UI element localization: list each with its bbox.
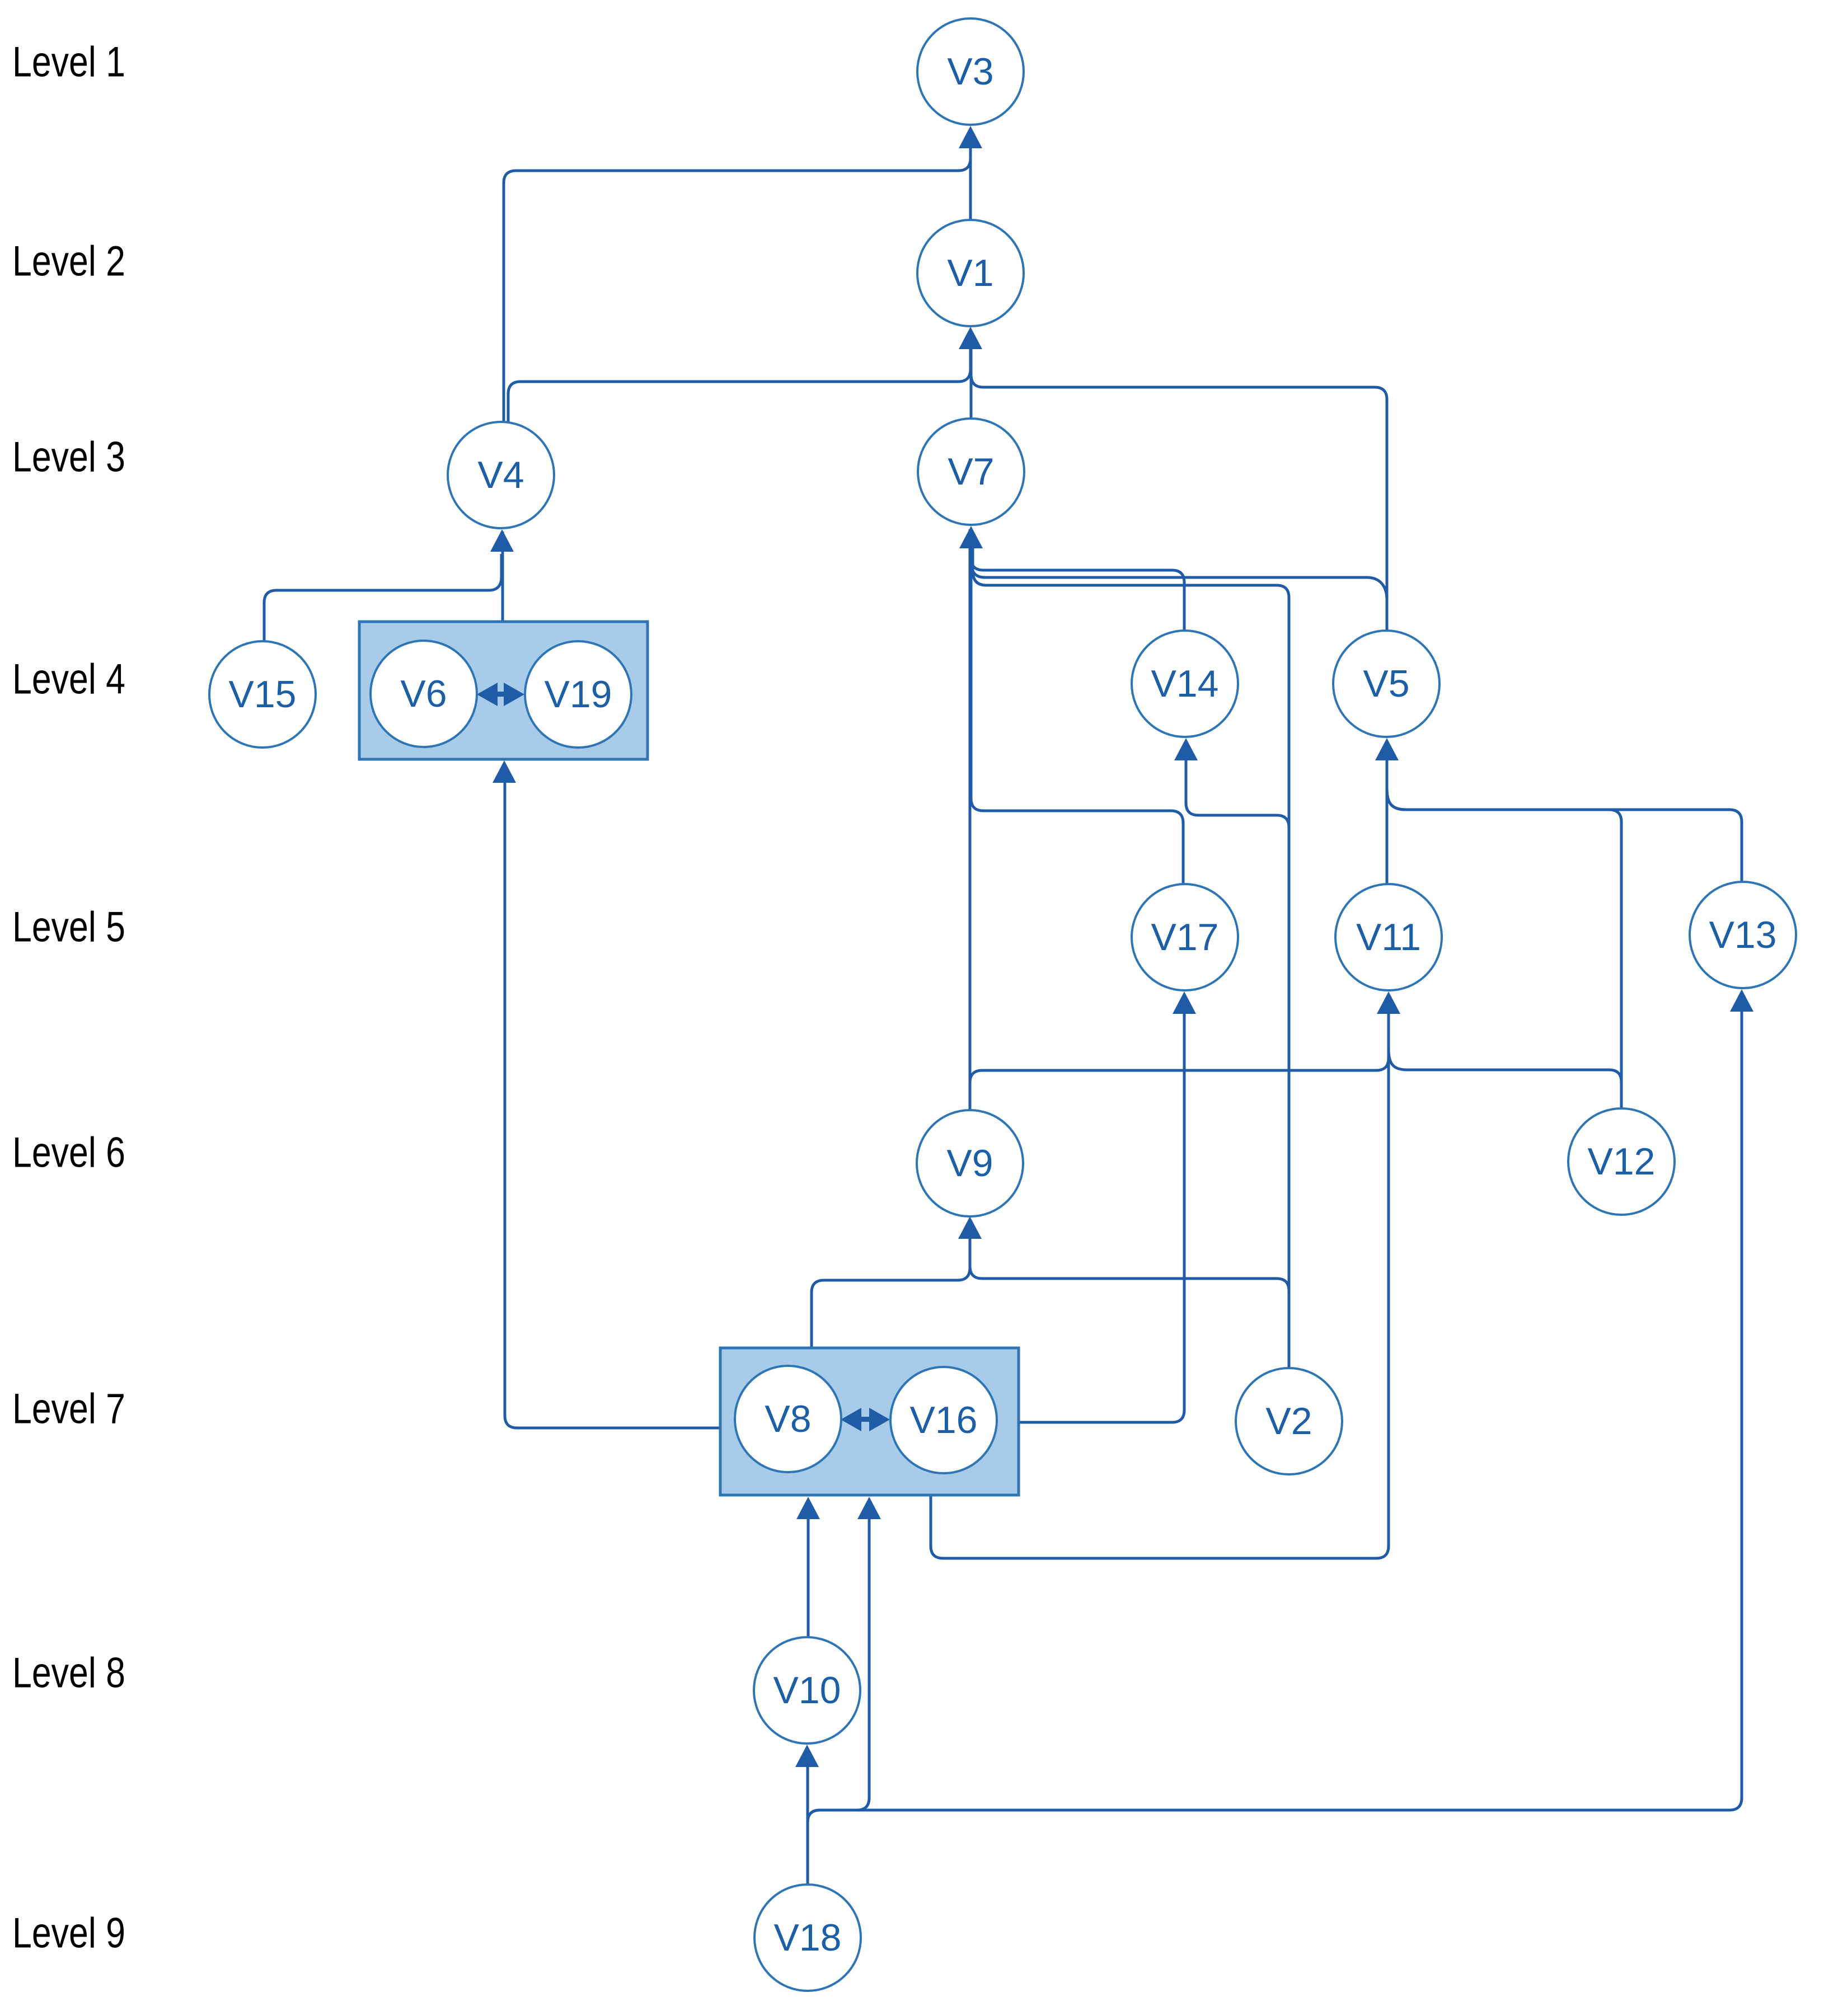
arrowhead into V3 <box>959 126 982 148</box>
svg-text:Level 7: Level 7 <box>12 1385 125 1433</box>
svg-text:V13: V13 <box>1709 914 1777 956</box>
edge V2->V9 <box>970 1223 1289 1368</box>
svg-text:Level 1: Level 1 <box>12 39 125 86</box>
edge group(V6,V19)->V4 <box>501 532 504 622</box>
double arrow V6<->V19 <box>477 683 524 706</box>
edge V12->V5 <box>1387 750 1621 1108</box>
edge V2->V7 <box>973 538 1289 1368</box>
node V10 <box>754 1637 860 1744</box>
arrowhead into V4 <box>490 529 514 552</box>
node V11 <box>1335 884 1442 990</box>
edge V18->group(V8,V16) <box>808 1501 869 1885</box>
edge V11->V5 <box>1386 741 1389 884</box>
edge V18->V10 <box>807 1749 809 1885</box>
edge V15->V4 <box>264 554 501 641</box>
arrowhead into V13 <box>1730 989 1753 1012</box>
group box (V8,V16) <box>720 1348 1019 1495</box>
edge V10->group(V8,V16) <box>807 1501 810 1637</box>
node V17 <box>1132 884 1238 990</box>
node V19 <box>525 641 631 748</box>
svg-text:V10: V10 <box>773 1669 841 1712</box>
svg-text:V3: V3 <box>947 50 993 93</box>
svg-text:Level 5: Level 5 <box>12 904 125 951</box>
arrowhead into V17 <box>1173 991 1196 1014</box>
node V8 <box>735 1366 841 1472</box>
svg-text:V17: V17 <box>1151 916 1219 958</box>
arrowhead into group(V6,V19) <box>493 760 516 783</box>
svg-text:Level 6: Level 6 <box>12 1129 125 1177</box>
arrowhead into V10 <box>795 1745 819 1767</box>
node V1 <box>917 220 1024 326</box>
svg-text:V18: V18 <box>774 1916 842 1959</box>
edge V12->V11 <box>1389 1004 1621 1108</box>
node V5 <box>1333 631 1439 737</box>
svg-text:Level 8: Level 8 <box>12 1650 125 1697</box>
node V18 <box>754 1885 861 1991</box>
svg-text:Level 4: Level 4 <box>12 656 125 703</box>
edge V14->V7 <box>971 536 1184 631</box>
svg-text:V19: V19 <box>545 673 612 716</box>
node V6 <box>371 641 477 747</box>
node V16 <box>890 1367 997 1473</box>
arrowhead into V9 <box>958 1216 982 1239</box>
svg-text:V4: V4 <box>477 454 524 496</box>
arrowhead into group(V8,V16) from V10 <box>796 1497 820 1519</box>
edge V9->V11 <box>970 995 1389 1110</box>
edge V7->V1 <box>970 331 973 419</box>
edge V16->V11 <box>931 1002 1389 1558</box>
svg-text:V1: V1 <box>947 252 993 294</box>
arrowhead into V14 <box>1174 738 1198 760</box>
svg-text:V9: V9 <box>946 1142 993 1185</box>
svg-text:V15: V15 <box>229 673 297 716</box>
edge V8->V9 <box>812 1220 970 1348</box>
edge V9->V7 <box>969 529 972 1110</box>
edge V4->V3 <box>504 132 970 422</box>
node V15 <box>209 641 316 748</box>
svg-text:V2: V2 <box>1265 1400 1312 1442</box>
svg-text:V7: V7 <box>948 450 994 493</box>
svg-text:V16: V16 <box>910 1399 978 1441</box>
node V12 <box>1568 1108 1675 1215</box>
edge V1->V3 <box>969 130 972 220</box>
arrowhead into V11 <box>1377 991 1400 1014</box>
svg-text:Level 2: Level 2 <box>12 238 125 285</box>
edge V18->V13 <box>808 994 1742 1885</box>
arrowhead into V5 <box>1375 738 1399 760</box>
node V14 <box>1132 631 1238 737</box>
edge V2->V14 <box>1186 741 1289 1368</box>
edge V16->V17 <box>1019 995 1184 1422</box>
node V9 <box>917 1110 1023 1216</box>
svg-text:Level 9: Level 9 <box>12 1910 125 1957</box>
edge V4->V1 <box>508 336 970 422</box>
double arrow V8<->V16 <box>841 1408 890 1431</box>
edge V5->V1 <box>971 337 1387 631</box>
node V3 <box>917 18 1024 125</box>
edge V8->group(V6,V19) <box>505 767 720 1428</box>
svg-text:Level 3: Level 3 <box>12 434 125 481</box>
svg-text:V8: V8 <box>765 1398 811 1440</box>
svg-text:V5: V5 <box>1363 662 1409 705</box>
edge V17->V7 <box>971 540 1183 884</box>
arrowhead into V1 <box>959 327 982 349</box>
svg-text:V6: V6 <box>400 673 447 715</box>
node V13 <box>1690 882 1796 988</box>
node V7 <box>918 419 1024 525</box>
arrowhead into V7 <box>959 526 983 548</box>
edge V13->V5 <box>1387 750 1742 882</box>
svg-text:V14: V14 <box>1151 662 1219 705</box>
svg-text:V12: V12 <box>1588 1140 1656 1183</box>
node V4 <box>448 422 554 528</box>
edge V5->V7 <box>972 535 1387 631</box>
group box (V6,V19) <box>359 622 648 759</box>
node V2 <box>1236 1368 1342 1474</box>
svg-text:V11: V11 <box>1356 916 1421 958</box>
arrowhead into group(V8,V16) from V18 <box>857 1497 881 1519</box>
